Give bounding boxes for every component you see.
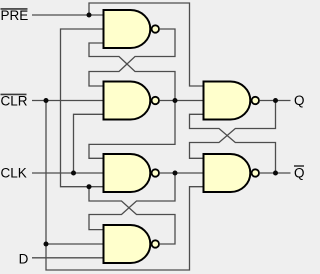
wire PRE input [32,14,104,16]
node N2 junction [173,98,178,103]
wire node N2 branch down to gate3 [89,101,175,159]
wire node N2 gate2 output [160,100,204,102]
label PRE with overline [1,8,29,23]
NAND gate U5 [204,82,251,120]
node Q junction [273,98,278,103]
node PRE junction [87,13,92,18]
svg-text:Q: Q [294,93,305,108]
wire node N4 feedback to gate1 and gate3 [61,29,104,187]
label Qbar with overline [294,165,305,180]
bubble U3 [152,169,159,176]
svg-text:D: D [19,251,29,266]
bubble U5 [252,97,259,104]
wire Qbar output [260,172,291,174]
wire Qbar crossover to gate5 [190,114,276,173]
bubble U6 [252,169,259,176]
NAND gate U4 [104,225,151,263]
wire D input [32,257,104,259]
svg-text:CLK: CLK [1,165,27,180]
wire node N3 crossover down to gate4 [89,173,175,230]
wire CLR vertical to G4 [46,101,104,245]
wire node N2 crossover up to gate1 [89,43,175,101]
NAND gate U2 [104,82,151,120]
svg-text:Q: Q [294,165,305,180]
node N4 junction [87,184,92,189]
wire PRE branch to top loop [89,3,204,86]
label CLR with overline [1,94,28,109]
wire CLK branch to G2 [74,114,104,173]
svg-text:PRE: PRE [1,8,29,23]
NAND gate U6 [204,154,251,192]
wire node N4 gate4 output to crossover [89,187,175,244]
node CLR junction at gate2 [44,98,49,103]
wire CLR input [32,100,104,102]
node N3 junction [173,171,178,176]
bubble U2 [152,97,159,104]
wire CLR bottom route to G6 [46,187,204,270]
node Qbar junction [273,171,278,176]
node CLK junction [71,171,76,176]
wire CLK input [32,172,104,174]
NAND gate U3 [104,154,151,192]
NAND gate U1 [104,10,151,48]
svg-text:CLR: CLR [1,94,28,109]
wire Q output [260,100,291,102]
node CLR junction at gate4 [44,242,49,247]
bubble U4 [152,240,159,247]
wire node N1 gate1 output to crossover into gate2 [89,29,175,86]
wire node N3 gate3 output [160,172,204,174]
wire Q crossover to gate6 [190,101,276,159]
bubble U1 [152,25,159,32]
